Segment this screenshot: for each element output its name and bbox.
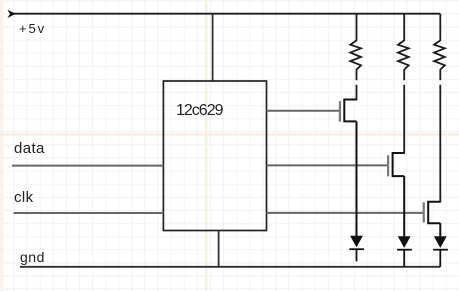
wire +5v rail	[14, 13, 441, 15]
diode D3	[433, 236, 448, 266]
major grid line vertical (beige)	[205, 0, 207, 291]
resistor R2	[398, 14, 409, 81]
wire Q1 source to D1	[356, 121, 358, 236]
wire U1 pin to Q3 gate	[267, 212, 424, 214]
wire Q3 source to D3	[439, 223, 441, 236]
label 12c629	[176, 103, 223, 119]
+5v rail arrowhead	[8, 11, 15, 18]
wire R3 to Q3 drain	[439, 85, 441, 203]
wire U1 pin to Q2 gate	[267, 164, 388, 166]
transistor Q3	[424, 202, 441, 223]
wire clk input	[14, 212, 164, 214]
wire U1 bottom to gnd	[218, 231, 220, 267]
diode D2	[397, 236, 412, 266]
wire +5v rail to U1 top	[212, 14, 214, 81]
label +5v	[19, 22, 46, 35]
major grid line vertical left (beige faint)	[1, 0, 3, 291]
label clk	[14, 190, 34, 205]
resistor R3	[434, 14, 445, 81]
wire gnd rail	[20, 266, 440, 268]
wire R1 to Q1 drain	[356, 85, 358, 100]
transistor Q2	[388, 153, 404, 176]
wire data input	[12, 165, 163, 167]
diode D1	[349, 236, 364, 262]
wire Q2 source to D2	[403, 176, 405, 236]
label gnd	[20, 250, 45, 264]
wire U1 pin to Q1 gate	[267, 110, 340, 112]
major grid line horizontal (beige)	[0, 134, 459, 136]
label data	[14, 141, 45, 156]
IC U1 12c629	[163, 81, 266, 231]
wire R2 to Q2 drain	[403, 85, 405, 154]
transistor Q1	[340, 100, 357, 122]
resistor R1	[350, 14, 361, 81]
